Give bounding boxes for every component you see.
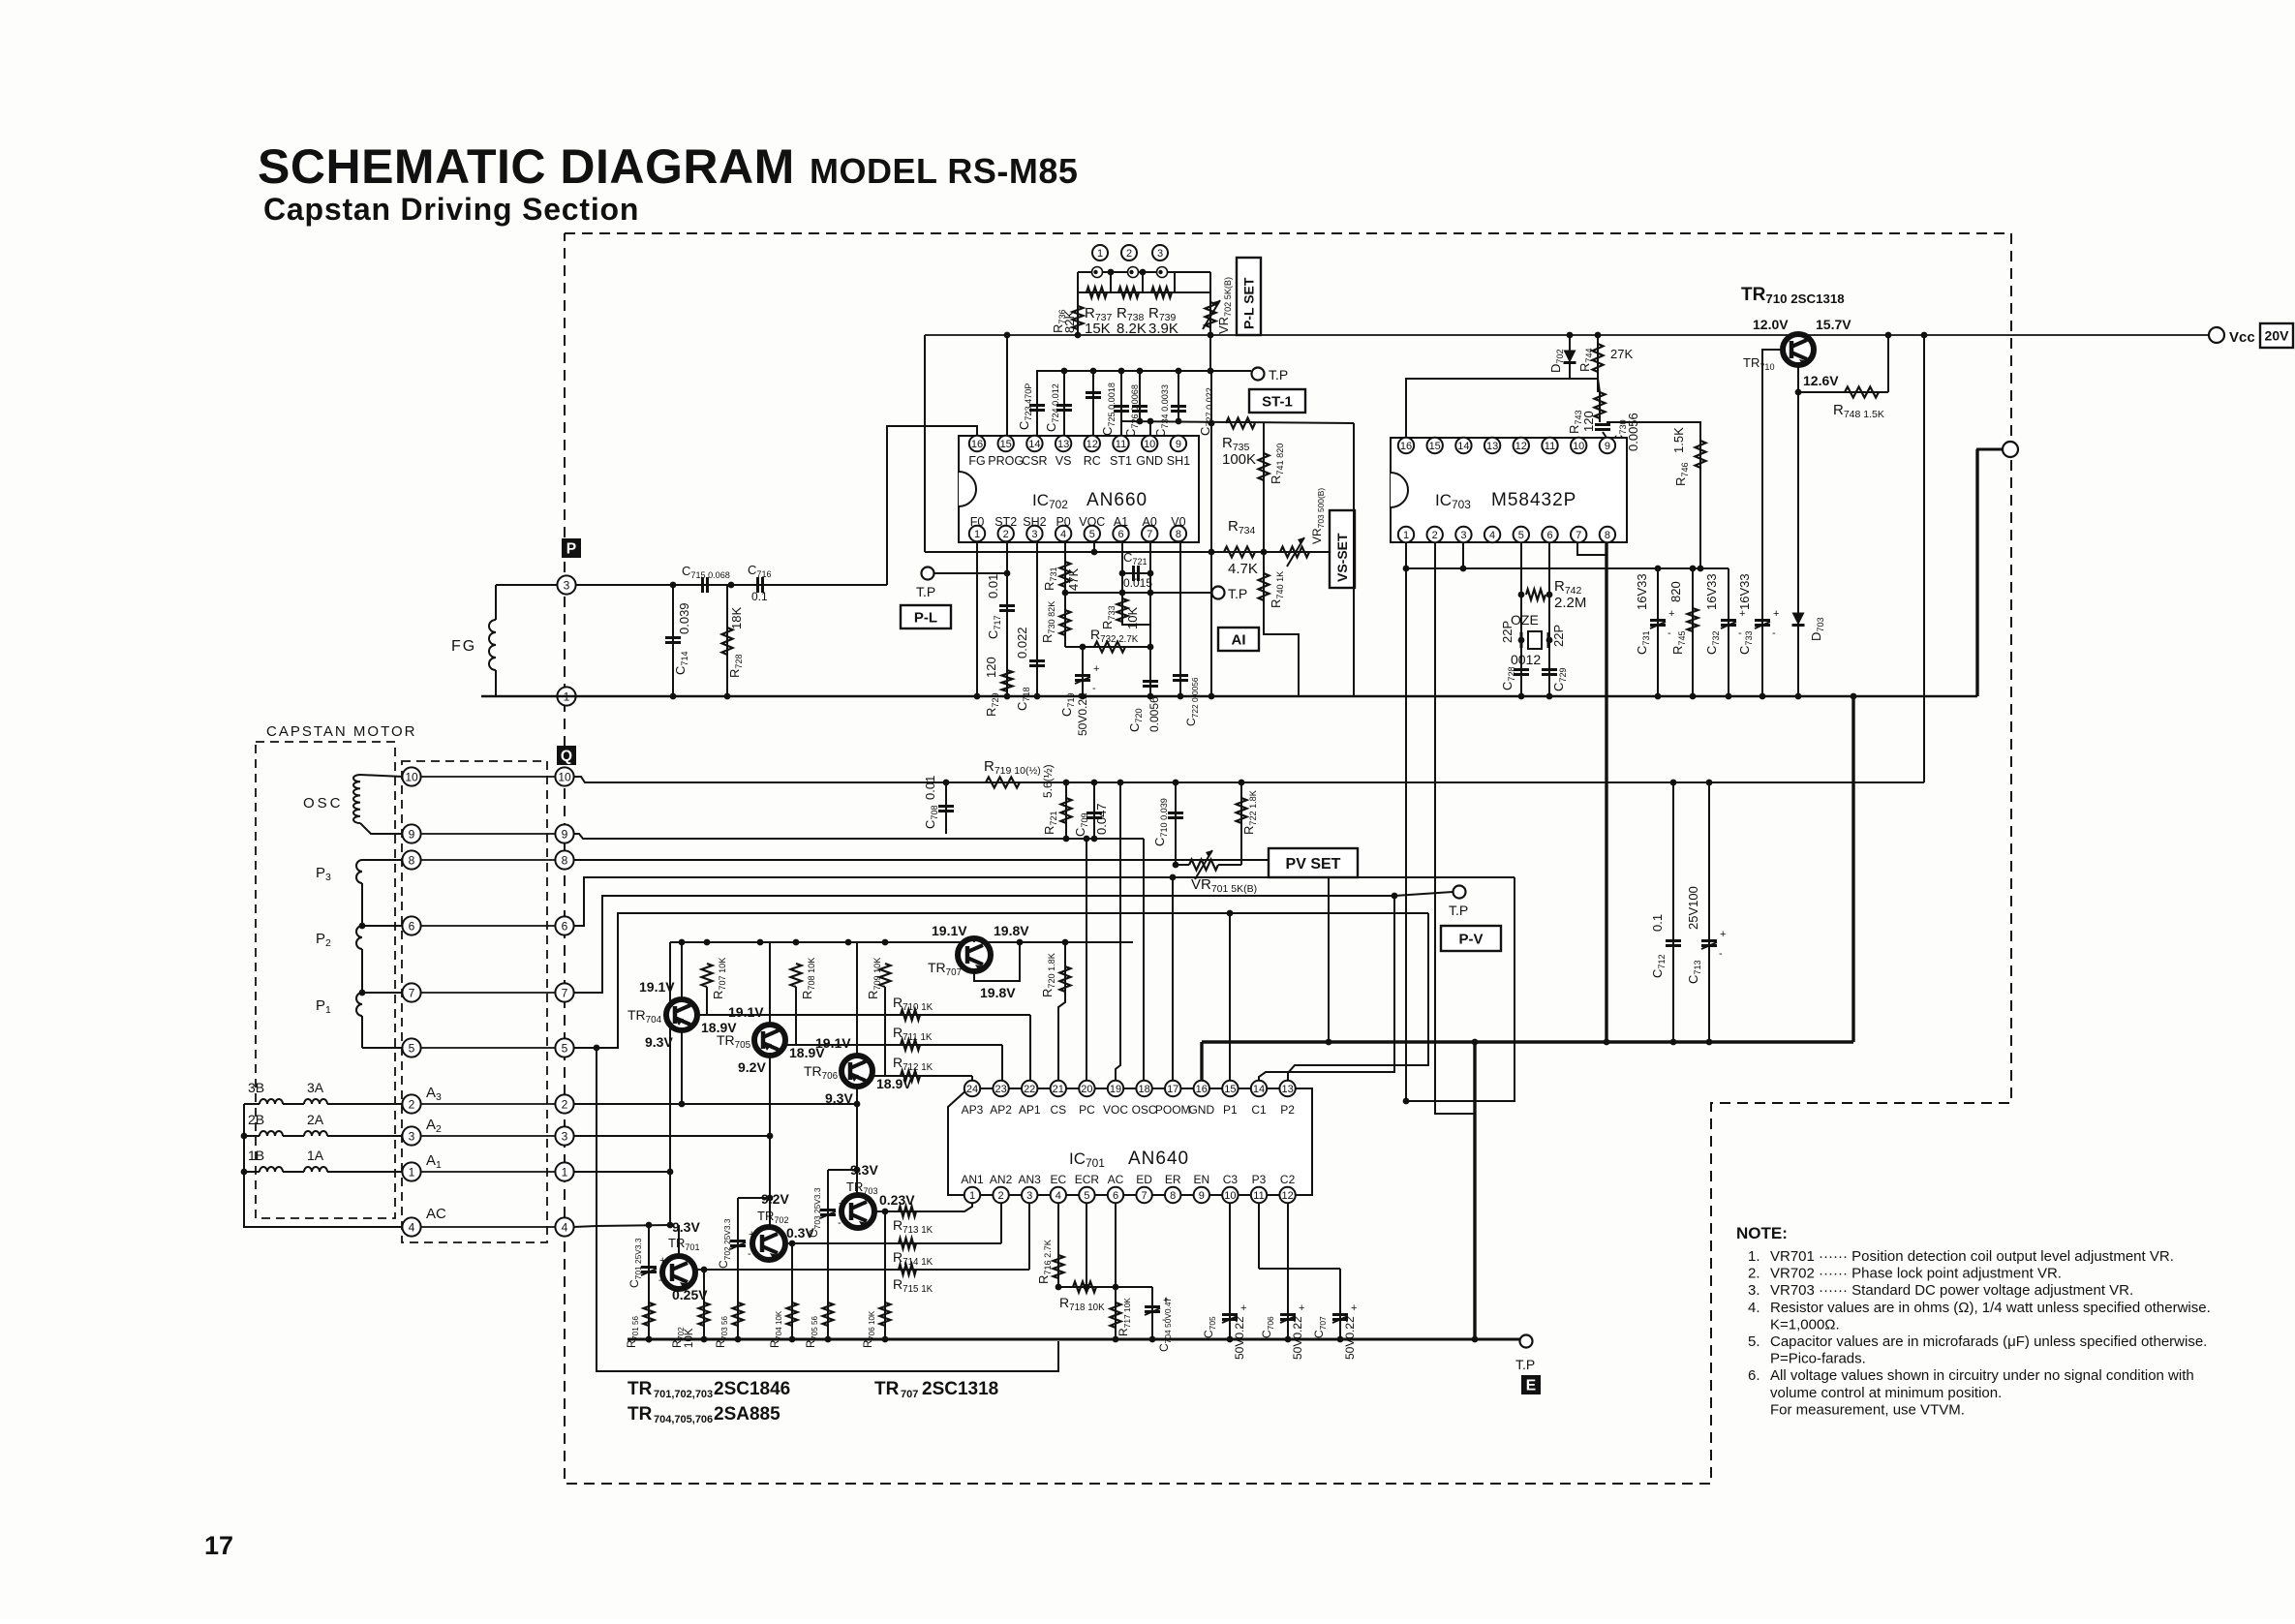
svg-text:27K: 27K xyxy=(1610,347,1633,361)
svg-text:13: 13 xyxy=(1281,1084,1293,1095)
wire row 9 xyxy=(420,833,556,835)
connector pin 3 left xyxy=(402,1126,420,1145)
Q marker square xyxy=(557,746,576,765)
resistor R737 15K xyxy=(1085,288,1113,338)
svg-text:1A: 1A xyxy=(307,1148,324,1163)
R718 10K xyxy=(1059,1282,1105,1314)
svg-text:15.7V: 15.7V xyxy=(1816,317,1851,332)
R720 1.8K xyxy=(1040,939,1071,1081)
C718 0.022 xyxy=(1015,627,1045,711)
svg-text:1: 1 xyxy=(974,529,980,540)
svg-text:25V100: 25V100 xyxy=(1686,886,1700,930)
svg-text:50V0.22: 50V0.22 xyxy=(1233,1316,1246,1360)
svg-text:16: 16 xyxy=(971,439,983,450)
svg-text:100K: 100K xyxy=(1222,451,1256,468)
R702 10K xyxy=(672,1267,710,1348)
A1 riser/TR704 xyxy=(667,942,674,1225)
IC703 name xyxy=(1435,490,1576,511)
svg-text:PC: PC xyxy=(1079,1103,1095,1117)
IC703 pin5 wire xyxy=(1520,542,1522,696)
C707 50V0.22 xyxy=(1312,1302,1357,1360)
connector pin 3 (P) xyxy=(557,575,575,594)
svg-text:2: 2 xyxy=(1003,529,1009,540)
svg-text:AN640: AN640 xyxy=(1128,1149,1189,1169)
svg-text:MODEL RS-M85: MODEL RS-M85 xyxy=(810,151,1078,191)
svg-text:19.1V: 19.1V xyxy=(815,1035,851,1051)
A3 line right xyxy=(573,1103,857,1105)
svg-text:6: 6 xyxy=(1113,1190,1118,1202)
svg-text:7: 7 xyxy=(562,986,568,999)
C715 0.068 xyxy=(682,564,730,593)
C728 22P xyxy=(1500,621,1529,690)
op-amp U-IC702 body xyxy=(959,436,1199,542)
svg-text:5: 5 xyxy=(1518,530,1524,541)
AP1 riser xyxy=(1029,1015,1031,1081)
svg-text:VR702 ······ Phase lock point: VR702 ······ Phase lock point adjustment… xyxy=(1770,1266,2062,1282)
svg-text:VS: VS xyxy=(1056,454,1072,468)
IC703 top pins xyxy=(1398,438,1615,453)
R706 10K xyxy=(863,1209,891,1348)
svg-text:1: 1 xyxy=(562,1165,568,1179)
C712 0.1 xyxy=(1650,780,1681,1046)
svg-text:+: + xyxy=(1773,608,1779,620)
svg-text:TR: TR xyxy=(627,1404,653,1425)
svg-text:4: 4 xyxy=(1060,529,1066,540)
bottom bus line y719 xyxy=(481,695,1977,698)
R748 1.5K xyxy=(1798,332,1891,420)
x1451 drop xyxy=(1403,566,1410,1105)
svg-text:AN3: AN3 xyxy=(1019,1173,1042,1186)
E terminal circle xyxy=(1976,442,2018,457)
R730 82K xyxy=(1040,601,1071,647)
svg-text:VOC: VOC xyxy=(1103,1103,1128,1117)
svg-text:P=Pico-farads.: P=Pico-farads. xyxy=(1770,1351,1866,1367)
svg-text:Q: Q xyxy=(561,749,572,765)
svg-text:A1: A1 xyxy=(1114,515,1128,529)
diode D703 xyxy=(1792,613,1826,642)
R732 2.7K xyxy=(1090,627,1139,653)
resistor R736 82K xyxy=(1051,292,1084,338)
svg-text:SH1: SH1 xyxy=(1167,454,1190,468)
svg-text:2: 2 xyxy=(1432,530,1438,541)
svg-text:-: - xyxy=(1092,683,1096,694)
svg-text:5: 5 xyxy=(1089,529,1095,540)
loop wire xyxy=(594,1045,1058,1371)
R715 1K xyxy=(893,1265,933,1296)
wire row 10 xyxy=(420,776,556,778)
wire vcc bus riser xyxy=(924,335,926,552)
svg-text:6: 6 xyxy=(1117,529,1123,540)
svg-text:AN1: AN1 xyxy=(961,1173,984,1186)
svg-text:9.3V: 9.3V xyxy=(850,1162,878,1178)
svg-text:C2: C2 xyxy=(1280,1173,1296,1186)
transistor TR705 xyxy=(754,942,785,1227)
svg-text:SH2: SH2 xyxy=(1023,515,1046,529)
resistor chain line xyxy=(1078,291,1210,293)
TR705 labels xyxy=(717,1004,825,1075)
svg-text:12: 12 xyxy=(1086,439,1098,450)
C727 0.022 xyxy=(1171,371,1214,436)
svg-text:47K: 47K xyxy=(1066,568,1081,591)
svg-text:10: 10 xyxy=(1573,441,1584,452)
jack circled 1 xyxy=(1092,245,1108,260)
jack contacts xyxy=(1092,267,1168,278)
vcc drop x1987 xyxy=(1921,332,1928,782)
svg-text:AN660: AN660 xyxy=(1086,490,1147,510)
TR707 emitter loop xyxy=(974,942,1020,981)
pin8 long line xyxy=(573,860,1331,1045)
R744 27K xyxy=(1577,332,1633,379)
VR701 5K(B) xyxy=(1189,850,1257,895)
R707 drop xyxy=(697,987,707,1015)
svg-text:5.: 5. xyxy=(1748,1333,1760,1350)
connector pin 1 (P) xyxy=(557,687,575,705)
svg-text:15: 15 xyxy=(1429,441,1441,452)
wire row 3 xyxy=(420,1135,556,1137)
svg-text:3.: 3. xyxy=(1748,1282,1760,1299)
P marker square xyxy=(562,538,581,558)
svg-text:0.1: 0.1 xyxy=(1650,914,1665,932)
svg-text:17: 17 xyxy=(204,1531,233,1560)
AC drop xyxy=(1115,1203,1117,1339)
svg-text:1: 1 xyxy=(1097,248,1103,260)
svg-text:24: 24 xyxy=(966,1084,978,1095)
R701 56 xyxy=(627,1298,655,1348)
svg-text:8: 8 xyxy=(1170,1190,1176,1202)
R743 120 xyxy=(1567,379,1606,434)
pin20 riser xyxy=(1084,836,1090,1081)
connector pin 2 right (Q) xyxy=(555,1094,573,1113)
pin7 jog line xyxy=(573,893,1397,1081)
bottom text2 xyxy=(627,1404,780,1425)
E marker square (bottom) xyxy=(1515,1357,1541,1394)
svg-text:E: E xyxy=(1526,1378,1536,1394)
svg-text:0.01: 0.01 xyxy=(923,776,937,800)
svg-text:1: 1 xyxy=(409,1165,415,1179)
svg-text:7: 7 xyxy=(1142,1190,1147,1202)
svg-text:0.0056: 0.0056 xyxy=(1147,696,1161,732)
TR710 2SC1318 label xyxy=(1741,285,1845,306)
svg-text:AI: AI xyxy=(1232,631,1246,648)
svg-text:50V0.22: 50V0.22 xyxy=(1291,1316,1304,1360)
R717 10K xyxy=(1111,1298,1133,1343)
svg-text:8: 8 xyxy=(562,853,568,867)
wire row 4 xyxy=(420,1226,556,1228)
svg-text:3: 3 xyxy=(562,1129,568,1143)
20V box xyxy=(2260,323,2293,348)
svg-text:+: + xyxy=(1351,1302,1357,1314)
svg-text:20: 20 xyxy=(1081,1084,1092,1095)
C724 0.012 xyxy=(1044,371,1072,436)
C705 50V0.22 xyxy=(1202,1302,1246,1360)
A3 label xyxy=(426,1085,442,1103)
svg-text:0012: 0012 xyxy=(1511,652,1541,667)
C710 0.039 xyxy=(1152,780,1189,869)
A2 line right xyxy=(573,1135,770,1137)
svg-text:P-L SET: P-L SET xyxy=(1241,277,1257,329)
R734 4.7K xyxy=(1224,518,1258,577)
C704 50V0.47 xyxy=(1145,1287,1173,1352)
winding common bus xyxy=(241,1104,403,1227)
svg-text:2.2M: 2.2M xyxy=(1554,595,1586,611)
TR703 labels xyxy=(846,1162,915,1208)
svg-text:16V33: 16V33 xyxy=(1737,573,1752,610)
svg-text:4: 4 xyxy=(1056,1190,1061,1202)
vertical x1157 xyxy=(1116,780,1123,1081)
svg-text:10: 10 xyxy=(1144,439,1155,450)
svg-text:11: 11 xyxy=(1545,441,1555,452)
PV SET box xyxy=(1269,848,1358,877)
svg-text:18K: 18K xyxy=(729,607,744,629)
R708 drop xyxy=(785,987,796,1045)
svg-text:6: 6 xyxy=(562,919,568,933)
vertical x1398 xyxy=(1353,423,1355,696)
IC703 pin7-8 wire xyxy=(1577,542,1606,555)
svg-text:1B: 1B xyxy=(248,1148,264,1163)
Vcc bus xyxy=(925,334,2209,336)
svg-text:4.: 4. xyxy=(1748,1300,1760,1316)
C731 16V33 xyxy=(1635,568,1674,699)
connector pin 6 right (Q) xyxy=(555,916,573,935)
wire row 2 xyxy=(420,1103,556,1105)
R731 47K xyxy=(1042,562,1081,591)
heavy gnd bus y1076 xyxy=(1202,1039,1853,1046)
svg-text:3B: 3B xyxy=(248,1080,264,1095)
svg-text:AP2: AP2 xyxy=(990,1103,1012,1117)
R728 18K xyxy=(722,585,745,699)
pin18 riser xyxy=(1143,839,1145,1081)
svg-text:0.047: 0.047 xyxy=(1094,803,1109,835)
R708 10K xyxy=(791,958,817,999)
svg-text:12.6V: 12.6V xyxy=(1803,373,1839,388)
pin7 drop xyxy=(1149,542,1151,696)
svg-text:8.2K: 8.2K xyxy=(1117,321,1147,337)
svg-text:50V0.22: 50V0.22 xyxy=(1343,1316,1357,1360)
R721 5.6(1/2) xyxy=(1041,764,1072,842)
jack circled 2 xyxy=(1121,245,1137,260)
IC703 body xyxy=(1391,438,1627,542)
svg-text:9: 9 xyxy=(562,827,568,841)
svg-text:Capstan Driving Section: Capstan Driving Section xyxy=(263,192,639,227)
svg-text:Vcc: Vcc xyxy=(2229,329,2255,346)
capstan motor dashed box xyxy=(256,742,395,1218)
svg-text:8: 8 xyxy=(1176,529,1181,540)
wire row 5 xyxy=(420,1047,556,1049)
FG coil xyxy=(489,585,496,696)
svg-text:ST2: ST2 xyxy=(994,515,1017,529)
C702 25V3.3 xyxy=(717,1195,773,1298)
svg-text:7: 7 xyxy=(409,986,415,999)
svg-text:16V33: 16V33 xyxy=(1704,573,1719,610)
crystal OZE 0012 xyxy=(1511,612,1552,667)
svg-text:ST-1: ST-1 xyxy=(1262,393,1293,410)
heavy gnd riser pin16 xyxy=(1200,1042,1203,1081)
main dashed boundary xyxy=(565,233,2011,1484)
svg-text:820: 820 xyxy=(1668,581,1683,602)
svg-text:GND: GND xyxy=(1188,1103,1214,1117)
svg-text:FG: FG xyxy=(968,454,985,468)
R742 2.2M xyxy=(1518,578,1587,611)
connector pin 8 right (Q) xyxy=(555,850,573,869)
svg-text:3: 3 xyxy=(409,1129,415,1143)
x1475 drop xyxy=(1288,913,1428,1081)
P3 drop xyxy=(1258,1203,1260,1269)
svg-text:C3: C3 xyxy=(1223,1173,1239,1186)
svg-text:2.: 2. xyxy=(1748,1266,1760,1282)
svg-text:0.25V: 0.25V xyxy=(672,1287,708,1302)
IC702 name xyxy=(1032,490,1147,511)
transistor TR703 xyxy=(841,1195,874,1228)
transistor TR702 xyxy=(752,1227,785,1260)
svg-text:-: - xyxy=(1668,628,1671,639)
connector pin 5 left xyxy=(402,1038,420,1057)
svg-text:13: 13 xyxy=(1057,439,1069,450)
cluster top rail xyxy=(1036,368,1251,375)
IC703 pin1/3 wires xyxy=(1406,542,1463,568)
wire FG top xyxy=(496,584,558,586)
R740 1K xyxy=(1259,571,1286,608)
connector pin 5 right (Q) xyxy=(555,1038,573,1057)
C701 25V3.3 xyxy=(627,1225,665,1298)
AP3 riser xyxy=(971,1076,973,1081)
P-L SET box xyxy=(1237,258,1261,335)
R713 1K xyxy=(893,1207,933,1237)
transistor TR701 xyxy=(662,1256,695,1289)
connector pin 7 left xyxy=(402,983,420,1001)
svg-text:4: 4 xyxy=(562,1220,568,1234)
P2 coil xyxy=(356,923,403,993)
TR703 emitter line xyxy=(874,1203,972,1211)
pin5 VOC drop xyxy=(1093,542,1095,552)
IC701 body xyxy=(948,1088,1312,1195)
VS col bottom xyxy=(1264,552,1299,696)
connector pin 9 right (Q) xyxy=(555,824,573,843)
C726 0.0068 xyxy=(1114,371,1140,438)
svg-text:13: 13 xyxy=(1486,441,1498,452)
svg-text:2SA885: 2SA885 xyxy=(714,1404,780,1425)
svg-text:For measurement, use VTVM.: For measurement, use VTVM. xyxy=(1770,1401,1965,1418)
svg-text:C1: C1 xyxy=(1251,1103,1267,1117)
svg-text:9: 9 xyxy=(1605,441,1610,452)
junction xyxy=(728,582,735,589)
svg-text:22P: 22P xyxy=(1500,621,1515,643)
svg-text:VR703 ······ Standard DC power: VR703 ······ Standard DC power voltage a… xyxy=(1770,1282,2133,1299)
svg-text:T.P: T.P xyxy=(1449,903,1468,918)
svg-text:P1: P1 xyxy=(1223,1103,1238,1117)
winding 3B/3A xyxy=(244,1080,403,1104)
AN3 riser xyxy=(1028,1203,1030,1270)
svg-text:10: 10 xyxy=(558,770,571,783)
svg-text:2: 2 xyxy=(998,1190,1004,1202)
IC701 bottom pins xyxy=(961,1173,1295,1203)
svg-text:16V33: 16V33 xyxy=(1635,573,1649,610)
IC701 name xyxy=(1069,1149,1189,1170)
svg-text:+: + xyxy=(1093,663,1099,675)
svg-text:1.5K: 1.5K xyxy=(1671,427,1686,453)
svg-text:701,702,703: 701,702,703 xyxy=(654,1389,713,1400)
svg-text:10: 10 xyxy=(405,770,418,783)
svg-text:11: 11 xyxy=(1116,439,1126,450)
capstan motor label xyxy=(266,723,416,740)
wire row 1 xyxy=(420,1171,556,1173)
T.P P-V wire xyxy=(1394,886,1501,952)
page number xyxy=(204,1531,233,1560)
svg-text:OSC: OSC xyxy=(1132,1103,1157,1117)
C714 0.039 xyxy=(665,582,691,700)
svg-text:4: 4 xyxy=(1489,530,1495,541)
wire row 6 xyxy=(420,925,556,927)
svg-text:7: 7 xyxy=(1576,530,1581,541)
T.P P-L xyxy=(901,567,1010,629)
TR707 labels xyxy=(928,923,1029,1000)
svg-text:2SC1846: 2SC1846 xyxy=(714,1379,790,1399)
T.P ST-1 xyxy=(1249,367,1305,413)
svg-text:OZE: OZE xyxy=(1511,612,1539,628)
connector pin 4 left xyxy=(402,1217,420,1236)
base line TR706 xyxy=(872,1075,972,1077)
svg-text:-: - xyxy=(1719,948,1723,960)
resistor R738 8.2K xyxy=(1117,288,1147,338)
svg-text:16: 16 xyxy=(1196,1084,1208,1095)
x1564 drop xyxy=(1406,877,1515,1101)
svg-text:9.2V: 9.2V xyxy=(738,1059,766,1075)
svg-text:6: 6 xyxy=(1546,530,1552,541)
C713 25V100 xyxy=(1686,780,1726,1046)
svg-text:TR: TR xyxy=(627,1379,653,1399)
svg-text:AP3: AP3 xyxy=(962,1103,984,1117)
svg-text:19: 19 xyxy=(1110,1084,1121,1095)
connector pin 9 left xyxy=(402,824,420,843)
svg-text:GND: GND xyxy=(1136,454,1163,468)
svg-text:10K: 10K xyxy=(1125,607,1140,629)
transistor TR704 xyxy=(666,939,697,1108)
C733 16V33 xyxy=(1737,573,1779,655)
svg-text:9.2V: 9.2V xyxy=(761,1191,789,1207)
R734 4.7K line xyxy=(925,549,1354,556)
R707 10K xyxy=(702,958,728,999)
IC702 pin15 riser xyxy=(1004,332,1011,436)
svg-text:+: + xyxy=(1299,1302,1304,1314)
svg-text:+: + xyxy=(1240,1302,1246,1314)
C717 0.01 xyxy=(986,574,1015,639)
connector pin 4 right (Q) xyxy=(555,1217,573,1236)
C2 drop xyxy=(1285,1203,1292,1342)
x1468 drop xyxy=(1435,542,1475,1114)
vertical to VS column xyxy=(1263,423,1265,552)
svg-text:19.1V: 19.1V xyxy=(932,923,967,938)
svg-text:0.23V: 0.23V xyxy=(879,1192,915,1208)
svg-text:Resistor values are in ohms (Ω: Resistor values are in ohms (Ω), 1/4 wat… xyxy=(1770,1300,2211,1316)
svg-text:15K: 15K xyxy=(1085,321,1111,337)
svg-text:EN: EN xyxy=(1193,1173,1209,1186)
C3 drop xyxy=(1227,1203,1234,1342)
R733 10K xyxy=(1100,593,1150,629)
R719 10(1/2) xyxy=(943,758,1041,788)
svg-text:4.7K: 4.7K xyxy=(1228,561,1258,577)
TR702 labels xyxy=(757,1191,814,1241)
svg-text:18: 18 xyxy=(1138,1084,1149,1095)
svg-text:19.8V: 19.8V xyxy=(980,985,1016,1000)
svg-text:A0: A0 xyxy=(1143,515,1157,529)
VR702 5K(B) xyxy=(1203,277,1233,371)
connector pin 3 right (Q) xyxy=(555,1126,573,1145)
connector pin 7 right (Q) xyxy=(555,983,573,1001)
TR702 emitter line xyxy=(785,1242,1001,1244)
svg-text:TR: TR xyxy=(874,1379,900,1399)
R710 1K xyxy=(893,995,933,1021)
svg-text:707: 707 xyxy=(901,1389,918,1400)
svg-text:6.: 6. xyxy=(1748,1367,1760,1384)
